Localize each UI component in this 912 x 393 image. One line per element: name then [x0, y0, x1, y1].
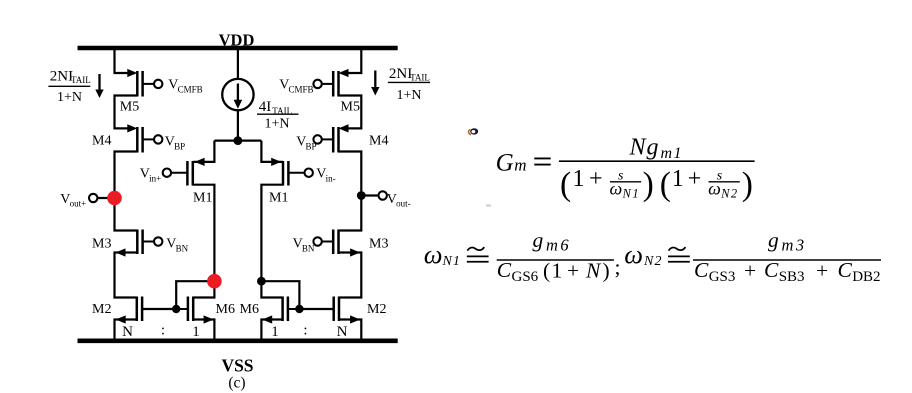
wire M6R drain to node: [261, 281, 282, 297]
wire M1L drain down to red node B: [193, 185, 215, 282]
terminal Vin+: [163, 169, 171, 177]
svg-text:BP: BP: [306, 141, 317, 151]
arrow 2NItail right: [371, 71, 379, 96]
terminal Vin-: [305, 169, 313, 177]
svg-text:2NI: 2NI: [50, 68, 73, 84]
svg-text:+: +: [816, 259, 828, 283]
svg-text:): ): [603, 259, 610, 283]
transistor M6 right: [283, 297, 300, 322]
wire current source to tail node: [237, 110, 239, 140]
transistor M6 left: [176, 297, 193, 322]
svg-text:m3: m3: [782, 236, 807, 255]
svg-text:): ): [643, 166, 654, 203]
svg-text:1: 1: [573, 166, 585, 192]
svg-text:2NI: 2NI: [389, 66, 412, 82]
svg-text:M3: M3: [92, 237, 111, 252]
svg-text:M5: M5: [341, 100, 360, 115]
svg-text:N: N: [337, 324, 348, 340]
svg-text:+: +: [688, 166, 702, 192]
wire left spine VDD to M5: [115, 48, 136, 73]
congruent symbol 2: [668, 247, 690, 262]
svg-text:BP: BP: [174, 141, 185, 151]
wire M2L source to VSS: [115, 320, 137, 339]
label 2NItail/(1+N) right: [388, 66, 430, 103]
wire M2R source to VSS: [339, 320, 361, 339]
svg-text:ω: ω: [424, 239, 443, 269]
svg-text:M4: M4: [92, 134, 111, 149]
wire M1R drain down to node: [261, 185, 283, 282]
svg-text:M2: M2: [367, 302, 386, 317]
transistor M3 right: [322, 230, 339, 255]
svg-text:N: N: [122, 324, 133, 340]
transistor M1 right: [283, 161, 304, 186]
wire M6L gate riser: [176, 281, 214, 309]
svg-text:1: 1: [552, 259, 563, 283]
svg-text:g: g: [647, 134, 659, 160]
wire M5L drain to M4L source: [115, 96, 138, 129]
label 2NItail/(1+N) left: [48, 68, 90, 105]
svg-text::: :: [161, 323, 165, 339]
node M2L/M6L gate junction: [172, 305, 180, 313]
svg-text:ω: ω: [610, 179, 623, 199]
svg-text:M6: M6: [240, 302, 259, 317]
VDD rail: [78, 46, 398, 51]
VSS rail: [78, 338, 398, 343]
current source I_tail: [222, 79, 253, 110]
svg-text:out-: out-: [396, 199, 411, 209]
wire M1L source up to tail: [193, 141, 215, 162]
wire right spine VDD to M5R: [341, 48, 362, 73]
svg-text:C: C: [838, 258, 853, 282]
svg-text:ω: ω: [624, 239, 643, 269]
transistor M3 left: [137, 230, 154, 255]
svg-text:1+N: 1+N: [264, 117, 289, 132]
label 4Itail/(1+N): [257, 99, 299, 131]
svg-text:(: (: [560, 166, 571, 203]
wire M3L source to M2L drain: [115, 253, 138, 298]
svg-text:1+N: 1+N: [396, 88, 421, 103]
node tail junction: [234, 136, 243, 145]
svg-text:;: ;: [615, 255, 621, 279]
terminal Vbn right: [313, 237, 321, 245]
terminal Vcmfb right: [313, 80, 321, 88]
svg-text:out+: out+: [70, 199, 87, 209]
svg-text:M1: M1: [193, 191, 212, 206]
svg-text:g: g: [768, 228, 779, 252]
svg-text:SB3: SB3: [779, 269, 805, 285]
svg-text:N2: N2: [720, 186, 739, 200]
svg-text:M4: M4: [369, 134, 388, 149]
wire M1R source up to tail: [261, 141, 283, 162]
node M6R drain: [257, 277, 266, 286]
svg-text:m6: m6: [546, 236, 571, 255]
transistor M4 left: [137, 127, 154, 153]
transistor M2 left: [137, 297, 142, 322]
svg-text:DB2: DB2: [852, 269, 880, 285]
terminal Vcmfb left: [154, 80, 162, 88]
svg-text:N: N: [629, 134, 648, 160]
wire M6L source to VSS: [193, 320, 214, 339]
svg-text:GS6: GS6: [512, 269, 539, 285]
terminal Vbn left: [154, 237, 162, 245]
svg-text:+: +: [744, 259, 756, 283]
svg-text:VDD: VDD: [219, 30, 255, 49]
svg-text:N1: N1: [442, 254, 461, 269]
wire M2L gate to junction: [142, 308, 176, 310]
congruent symbol 1: [467, 247, 489, 262]
svg-text::: :: [303, 323, 307, 339]
terminal Vout-: [379, 191, 387, 199]
svg-text:1: 1: [672, 166, 684, 192]
svg-text:): ): [742, 166, 753, 203]
wire M6L drain to node B: [193, 281, 214, 297]
svg-text:C: C: [497, 258, 512, 282]
wire M3R source to M2R drain: [339, 253, 362, 298]
node red dot Vout+: [107, 191, 122, 206]
svg-text:g: g: [533, 228, 544, 252]
wire M5R drain to M4R source: [339, 96, 362, 129]
wire Vout- tap: [361, 194, 378, 196]
arrow 2NItail left: [95, 74, 103, 98]
svg-text:C: C: [764, 258, 779, 282]
terminal Vbp left: [154, 135, 162, 143]
svg-text:N1: N1: [622, 186, 641, 200]
node Vout- junction: [357, 191, 366, 200]
node red dot M6L drain: [207, 274, 222, 289]
wire M6R source to VSS: [261, 320, 282, 339]
svg-text:G: G: [496, 150, 514, 177]
equation Gm: [496, 134, 755, 203]
svg-text:ω: ω: [708, 179, 721, 199]
svg-text:M1: M1: [269, 191, 288, 206]
svg-text:m1: m1: [661, 145, 684, 162]
svg-text:BN: BN: [302, 243, 315, 253]
svg-text:(: (: [660, 166, 671, 203]
svg-text:(: (: [543, 259, 550, 283]
svg-text:GS3: GS3: [709, 269, 736, 285]
svg-text:C: C: [694, 258, 709, 282]
svg-text:M5: M5: [120, 100, 139, 115]
terminal Vbp right: [313, 135, 321, 143]
transistor M5 left: [137, 71, 154, 97]
svg-text:M2: M2: [92, 302, 111, 317]
svg-text:M3: M3: [369, 237, 388, 252]
svg-text:CMFB: CMFB: [178, 84, 203, 94]
svg-text:BN: BN: [176, 243, 189, 253]
svg-text:1: 1: [192, 324, 200, 340]
wire M2R gate to junction: [299, 308, 333, 310]
svg-text:+: +: [589, 166, 603, 192]
stray mark small curl: [469, 128, 479, 134]
node M2R/M6R gate junction: [295, 305, 303, 313]
svg-text:(c): (c): [228, 374, 245, 391]
transistor M4 right: [322, 127, 339, 153]
svg-text:4I: 4I: [259, 99, 272, 115]
terminal Vout+: [89, 194, 97, 202]
svg-text:VSS: VSS: [221, 356, 253, 376]
wire M6R gate riser: [261, 281, 299, 309]
svg-text:in+: in+: [149, 173, 161, 183]
transistor M2 right: [334, 297, 339, 322]
svg-text:M6: M6: [216, 302, 235, 317]
transistor M1 left: [171, 161, 193, 186]
svg-text:1: 1: [271, 324, 279, 340]
stray mark faint smudge: [486, 204, 491, 206]
wire M4L drain down to M3L drain: [115, 152, 138, 231]
wire M4R drain down to M3R drain: [339, 152, 362, 231]
equation omega N1, omega N2: [424, 228, 881, 285]
svg-text:CMFB: CMFB: [289, 84, 314, 94]
svg-text:in-: in-: [326, 173, 336, 183]
svg-text:+: +: [567, 259, 579, 283]
wire tail bar: [214, 140, 261, 142]
svg-text:m: m: [514, 156, 526, 175]
wire Vout+ tap: [98, 197, 115, 199]
svg-text:1+N: 1+N: [57, 90, 82, 105]
svg-text:TAIL: TAIL: [71, 75, 91, 85]
svg-text:TAIL: TAIL: [410, 73, 430, 83]
svg-text:N2: N2: [643, 254, 663, 269]
transistor M5 right: [322, 71, 339, 97]
svg-text:N: N: [585, 259, 602, 283]
wire VDD to current source: [237, 48, 239, 79]
